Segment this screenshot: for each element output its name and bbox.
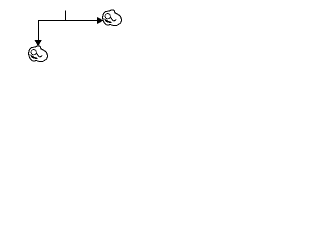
arrowhead (right, into right tool) xyxy=(97,17,104,24)
wiring tool icon (left) xyxy=(29,46,48,62)
wire: vertical segment xyxy=(38,20,40,41)
tack tick on wire xyxy=(65,10,67,20)
wire: horizontal segment xyxy=(38,20,98,22)
wiring tool icon (right) xyxy=(103,10,122,26)
arrowhead (down, into left tool) xyxy=(35,40,42,46)
